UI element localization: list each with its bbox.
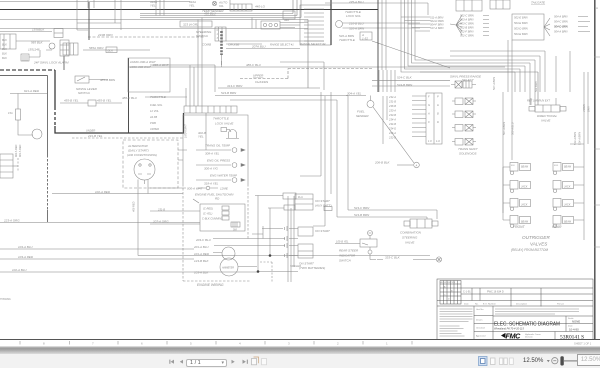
svg-text:223-A ORG: 223-A ORG (3, 219, 20, 223)
svg-text:513-A BRN: 513-A BRN (573, 132, 577, 145)
svg-text:PWR: PWR (150, 121, 156, 125)
svg-text:YEL: YEL (189, 4, 195, 8)
svg-text:Hydraulic Crane: Hydraulic Crane (525, 333, 541, 336)
svg-text:440-LO: 440-LO (255, 5, 266, 9)
svg-text:565A ORN: 565A ORN (89, 46, 104, 50)
svg-text:Description: Description (516, 303, 528, 306)
svg-text:103-A RED: 103-A RED (18, 255, 34, 259)
svg-text:523-B BRN: 523-B BRN (221, 91, 237, 95)
svg-text:BLK: BLK (108, 49, 115, 53)
svg-text:502-C BRN: 502-C BRN (460, 34, 474, 38)
svg-text:D: D (448, 298, 450, 300)
svg-text:621-A RED: 621-A RED (24, 89, 40, 93)
svg-text:Person: Person (557, 303, 565, 306)
svg-text:P: P (437, 95, 439, 99)
svg-text:232-B: 232-B (388, 136, 396, 140)
svg-text:REAR: REAR (552, 225, 562, 229)
svg-text:231-B YEL: 231-B YEL (87, 134, 103, 138)
svg-text:511-A BRN: 511-A BRN (430, 16, 443, 20)
svg-text:504 BRN: 504 BRN (534, 81, 538, 92)
svg-text:103-A BLK: 103-A BLK (194, 271, 209, 275)
svg-text:BLK: BLK (2, 52, 7, 56)
svg-text:BLK: BLK (2, 47, 7, 51)
svg-text:FRONT: FRONT (513, 225, 526, 229)
svg-text:503-D BRN: 503-D BRN (514, 27, 528, 31)
svg-text:106C-090 WHT: 106C-090 WHT (130, 65, 152, 69)
svg-text:C: C (217, 29, 219, 32)
svg-text:No.: No. (475, 304, 479, 306)
svg-text:DIRECTIONAL: DIRECTIONAL (537, 114, 558, 118)
svg-text:502-E BRN: 502-E BRN (514, 16, 528, 20)
svg-text:1-52: 1-52 (362, 37, 368, 41)
svg-text:507-A BRN: 507-A BRN (502, 122, 506, 135)
svg-text:502-B BRN: 502-B BRN (460, 26, 474, 30)
svg-text:308-A YEL: 308-A YEL (205, 152, 220, 156)
svg-text:486-C BLU: 486-C BLU (246, 63, 262, 67)
svg-text:G: G (428, 103, 430, 107)
svg-text:234-A: 234-A (388, 118, 396, 122)
svg-text:ALTERNATOR: ALTERNATOR (127, 144, 149, 148)
svg-text:BRN: BRN (587, 106, 591, 112)
svg-text:323 (A OR): 323 (A OR) (183, 23, 198, 27)
svg-text:(AIR CONDITIONING): (AIR CONDITIONING) (127, 153, 157, 157)
svg-text:(TWO BATTERIES): (TWO BATTERIES) (299, 266, 325, 270)
svg-text:233-B: 233-B (388, 113, 396, 117)
svg-text:5: 5 (190, 342, 192, 346)
svg-text:RET JAR RUN EXT: RET JAR RUN EXT (527, 99, 550, 103)
svg-text:1970-A WHT: 1970-A WHT (185, 124, 188, 138)
svg-text:F: F (428, 95, 430, 99)
svg-text:12 VOL: 12 VOL (150, 109, 159, 113)
svg-text:1-9: 1-9 (436, 139, 440, 143)
svg-text:524-B BRN: 524-B BRN (397, 83, 413, 87)
svg-text:235-A: 235-A (388, 131, 396, 135)
svg-text:313-C BRN: 313-C BRN (227, 84, 243, 88)
svg-text:RANGE SELECT #1: RANGE SELECT #1 (270, 43, 294, 47)
svg-text:E.O. Number: E.O. Number (483, 303, 496, 306)
svg-text:INDICATOR: INDICATOR (339, 254, 356, 258)
svg-text:Approved: Approved (476, 335, 486, 338)
svg-text:BLK: BLK (2, 56, 7, 60)
svg-text:6: 6 (141, 342, 143, 346)
svg-text:(C-RED): (C-RED) (203, 207, 213, 211)
svg-text:PWC 16 634 D: PWC 16 634 D (487, 291, 504, 294)
svg-text:FUEL: FUEL (357, 110, 365, 114)
svg-text:ENG WATER TEMP: ENG WATER TEMP (210, 174, 237, 178)
svg-text:1556BLK: 1556BLK (32, 28, 45, 32)
svg-text:206-B BLK: 206-B BLK (374, 161, 391, 165)
svg-text:523-B BRN: 523-B BRN (354, 213, 370, 217)
svg-text:R.R.: R.R. (554, 165, 559, 167)
svg-text:CRUISE: CRUISE (228, 43, 240, 47)
svg-text:4A FB: 4A FB (150, 115, 157, 119)
svg-text:C: C (428, 120, 430, 124)
svg-text:1 9: 1 9 (428, 139, 432, 143)
svg-text:504-F BRN: 504-F BRN (430, 23, 443, 27)
svg-text:THROTTLE: THROTTLE (150, 95, 167, 99)
svg-text:203-C BLU: 203-C BLU (195, 238, 212, 242)
svg-text:(DAILY START): (DAILY START) (128, 149, 149, 153)
svg-text:SENDER: SENDER (356, 114, 369, 118)
svg-text:24F SWVL LOCK ALARM: 24F SWVL LOCK ALARM (33, 61, 69, 65)
svg-text:53R0141 S: 53R0141 S (560, 335, 584, 341)
svg-text:123-B BLK: 123-B BLK (194, 259, 210, 263)
svg-text:000-A WHT: 000-A WHT (187, 187, 204, 191)
svg-text:ELEC. SCHEMATIC DIAGRAM: ELEC. SCHEMATIC DIAGRAM (494, 322, 560, 328)
svg-text:TRANS OIL TEMP: TRANS OIL TEMP (205, 144, 230, 148)
svg-text:Checked: Checked (476, 328, 485, 330)
svg-text:BLK: BLK (2, 43, 7, 47)
svg-text:STEERING: STEERING (402, 236, 418, 240)
svg-text:503-E BRN: 503-E BRN (514, 32, 528, 36)
svg-text:SHEET 1 OF 1: SHEET 1 OF 1 (574, 342, 592, 346)
svg-text:VALVE: VALVE (541, 119, 551, 123)
svg-text:COMBINATION: COMBINATION (400, 231, 422, 235)
svg-text:15A: 15A (8, 111, 13, 115)
svg-text:COMB: COMB (202, 43, 211, 47)
svg-text:A: A (427, 112, 430, 116)
svg-text:BEAM: BEAM (521, 221, 529, 224)
svg-text:231B ORN: 231B ORN (97, 33, 113, 37)
svg-text:233-A: 233-A (388, 109, 396, 113)
svg-text:2: 2 (337, 342, 339, 346)
svg-text:232-A: 232-A (388, 95, 396, 99)
svg-text:(RELAY) FROM BOTTOM: (RELAY) FROM BOTTOM (511, 248, 548, 252)
svg-text:207A BLU: 207A BLU (251, 45, 266, 49)
svg-text:Unit No.: Unit No. (476, 308, 484, 311)
svg-text:BEAM: BEAM (564, 221, 572, 224)
svg-text:300-A Y/G: 300-A Y/G (204, 167, 219, 171)
svg-text:VALVE: VALVE (405, 241, 415, 245)
svg-text:104-A BLU: 104-A BLU (18, 245, 33, 249)
svg-text:Wheatland PA 70-4-20-115: Wheatland PA 70-4-20-115 (494, 328, 524, 331)
svg-text:3: 3 (217, 37, 219, 40)
svg-text:304-A YEL: 304-A YEL (347, 92, 362, 96)
svg-text:504-D BRN: 504-D BRN (554, 25, 568, 29)
svg-text:601 A RED: 601 A RED (19, 144, 22, 157)
svg-text:ENG OIL PRESS: ENG OIL PRESS (207, 159, 230, 163)
svg-text:B: B (437, 112, 439, 116)
svg-text:231-B: 231-B (157, 208, 165, 212)
svg-text:-090-A WHT: -090-A WHT (152, 63, 170, 67)
svg-text:Division: Division (525, 337, 533, 339)
svg-text:520-A BRN: 520-A BRN (349, 27, 365, 31)
svg-text:AMMETER: AMMETER (221, 267, 234, 270)
svg-text:1551148: 1551148 (28, 48, 40, 52)
svg-text:504-D BRN: 504-D BRN (430, 19, 444, 23)
svg-text:101-A RED: 101-A RED (194, 252, 210, 256)
svg-text:C-1-91: C-1-91 (463, 291, 471, 294)
svg-text:234-B: 234-B (388, 122, 396, 126)
svg-text:1: 1 (217, 33, 219, 36)
svg-text:10-4-90: 10-4-90 (569, 328, 579, 332)
svg-text:Drawn: Drawn (476, 319, 483, 322)
svg-text:TRANS SHIFT: TRANS SHIFT (458, 147, 479, 151)
svg-text:FMC: FMC (506, 331, 522, 340)
svg-text:235-A BLU: 235-A BLU (348, 0, 364, 4)
svg-text:YEL: YEL (198, 135, 204, 139)
svg-text:485-A BRN: 485-A BRN (100, 78, 116, 82)
svg-text:AUTHORIZATION: AUTHORIZATION (441, 281, 456, 284)
svg-text:1: 1 (386, 342, 388, 346)
svg-text:RD: RD (215, 197, 220, 201)
svg-text:SELECT: SELECT (462, 78, 475, 82)
svg-text:(C-YEL): (C-YEL) (203, 212, 213, 216)
svg-text:333-C BLK: 333-C BLK (385, 256, 401, 260)
svg-text:3: 3 (288, 342, 290, 346)
svg-text:455-B YEL: 455-B YEL (97, 99, 112, 103)
svg-text:507-A BRN: 507-A BRN (492, 77, 496, 90)
svg-text:THROTTLE: THROTTLE (339, 38, 356, 42)
svg-text:231-B: 231-B (388, 100, 396, 104)
svg-text:517-A BRN: 517-A BRN (430, 26, 444, 30)
svg-text:486-C BLU: 486-C BLU (122, 96, 138, 100)
svg-text:508-A BLU: 508-A BLU (511, 122, 515, 135)
svg-text:524-C BLK: 524-C BLK (397, 76, 413, 80)
svg-text:408 RED: 408 RED (132, 201, 136, 212)
svg-text:OUTRIGGER: OUTRIGGER (522, 235, 551, 240)
svg-text:210-B BLU: 210-B BLU (348, 22, 365, 26)
svg-text:12ME: 12ME (220, 187, 229, 191)
svg-text:502-F BRN: 502-F BRN (460, 30, 473, 34)
svg-text:(AUX BATT): (AUX BATT) (315, 204, 332, 208)
svg-text:234-D: 234-D (388, 127, 396, 131)
svg-text:4: 4 (239, 342, 241, 346)
svg-text:Date: Date (464, 303, 469, 306)
svg-text:498 BLU: 498 BLU (204, 12, 217, 16)
svg-text:THROTTLE: THROTTLE (213, 117, 230, 121)
svg-text:523-C BRN: 523-C BRN (354, 206, 370, 210)
svg-text:JACK: JACK (564, 204, 571, 207)
svg-text:UPPER: UPPER (150, 127, 159, 131)
svg-text:H: H (437, 103, 439, 107)
svg-text:504-A BRN: 504-A BRN (554, 30, 568, 34)
svg-text:102-A RED: 102-A RED (95, 190, 111, 194)
svg-text:R.F.: R.F. (511, 165, 515, 167)
svg-text:8: 8 (43, 342, 45, 346)
svg-text:102-A BLU: 102-A BLU (12, 268, 27, 272)
svg-text:JACK: JACK (564, 186, 571, 189)
svg-text:207-A ORG: 207-A ORG (152, 220, 169, 224)
svg-text:A: A (415, 164, 418, 168)
svg-text:ON START: ON START (315, 199, 331, 203)
svg-text:A: A (596, 6, 598, 10)
svg-text:SOLENOIDS: SOLENOIDS (459, 152, 477, 156)
svg-text:CHASSIS: CHASSIS (255, 80, 268, 84)
svg-text:SWITCH: SWITCH (78, 91, 91, 95)
svg-text:ENGINE WIRING: ENGINE WIRING (197, 283, 224, 287)
svg-text:201-A BLU: 201-A BLU (193, 245, 209, 249)
svg-text:ON START: ON START (299, 262, 315, 266)
svg-text:TAILGATE: TAILGATE (531, 1, 546, 5)
svg-text:7: 7 (92, 342, 94, 346)
svg-text:318-A YEL: 318-A YEL (204, 182, 219, 186)
svg-text:C-BLK CUMMINS: C-BLK CUMMINS (202, 217, 223, 221)
svg-text:SWITCH: SWITCH (196, 34, 209, 38)
svg-text:REAR STEER: REAR STEER (339, 249, 359, 253)
svg-text:ON START: ON START (315, 229, 331, 233)
svg-text:UNDER: UNDER (86, 129, 95, 133)
svg-text:238-B: 238-B (388, 104, 396, 108)
svg-text:504-A BRN: 504-A BRN (554, 15, 568, 19)
svg-text:FUEL SOL: FUEL SOL (150, 103, 163, 107)
svg-text:RANGE SELECT #4: RANGE SELECT #4 (300, 42, 326, 46)
svg-text:LOCK VALVE: LOCK VALVE (215, 122, 234, 126)
svg-text:JACK: JACK (521, 204, 528, 207)
svg-text:BEAM: BEAM (564, 166, 572, 169)
svg-text:503-A BRN: 503-A BRN (460, 18, 474, 22)
svg-text:340: 340 (284, 18, 289, 22)
svg-text:TOWING: TOWING (0, 297, 11, 301)
svg-text:455-B YEL: 455-B YEL (64, 99, 79, 103)
svg-text:514-A BRN: 514-A BRN (578, 132, 582, 145)
svg-text:BEAM: BEAM (521, 166, 529, 169)
svg-text:R.H.: R.H. (298, 195, 303, 199)
svg-text:SWITCH: SWITCH (339, 259, 352, 263)
svg-text:OIL: OIL (219, 4, 224, 8)
svg-text:565 BLK: 565 BLK (31, 41, 44, 45)
svg-text:504-C BRN: 504-C BRN (554, 20, 568, 24)
svg-text:JACK: JACK (521, 186, 528, 189)
svg-text:BLK: BLK (2, 38, 7, 42)
svg-text:502-C BRN: 502-C BRN (460, 14, 474, 18)
svg-text:105-B YEL: 105-B YEL (336, 240, 349, 244)
svg-text:602 A RED: 602 A RED (15, 144, 18, 157)
svg-text:UPPER: UPPER (253, 74, 264, 78)
svg-text:YEL: YEL (150, 4, 156, 8)
svg-text:503-E BRN: 503-E BRN (514, 21, 528, 25)
svg-text:LOCK SOL: LOCK SOL (346, 14, 361, 18)
svg-text:VALVES: VALVES (530, 242, 548, 247)
svg-text:503-C BRN: 503-C BRN (460, 22, 474, 26)
svg-text:NONE: NONE (572, 320, 580, 324)
svg-text:D: D (437, 120, 439, 124)
